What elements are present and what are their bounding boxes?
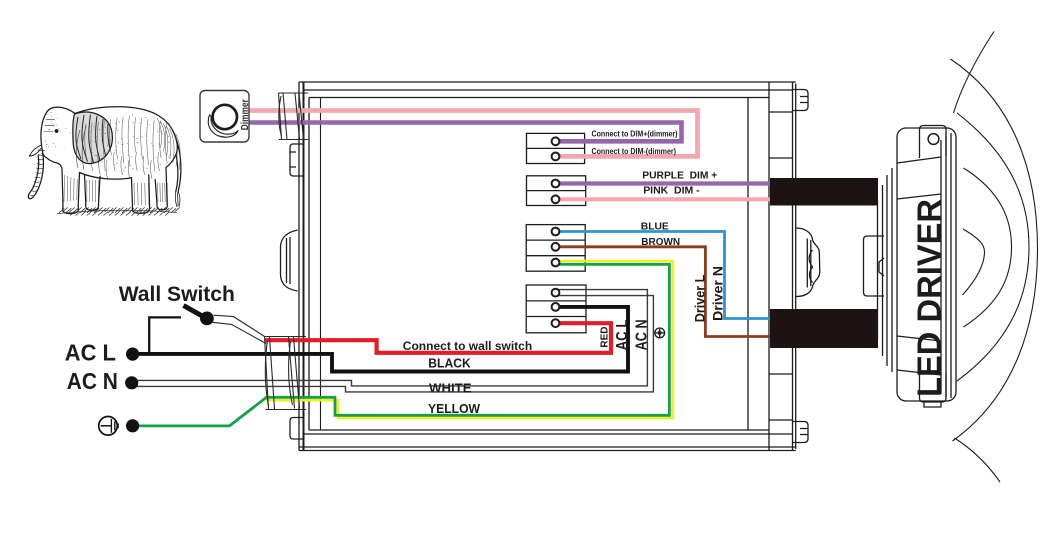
svg-text:Connect to wall switch: Connect to wall switch <box>403 339 532 353</box>
svg-text:RED: RED <box>599 326 611 347</box>
svg-text:AC L: AC L <box>65 340 116 366</box>
svg-text:BLUE: BLUE <box>641 220 669 232</box>
svg-text:PINK DIM -: PINK DIM - <box>643 185 700 197</box>
svg-text:YELLOW: YELLOW <box>428 402 480 416</box>
svg-text:PURPLE DIM +: PURPLE DIM + <box>642 169 717 181</box>
svg-text:Driver N: Driver N <box>711 266 726 321</box>
svg-text:AC N: AC N <box>633 319 650 350</box>
svg-text:LED DRIVER: LED DRIVER <box>911 199 948 397</box>
svg-text:BROWN: BROWN <box>641 236 680 248</box>
svg-text:Driver L: Driver L <box>693 275 708 323</box>
svg-text:AC L: AC L <box>614 319 631 350</box>
svg-text:Connect to DIM-(dimmer): Connect to DIM-(dimmer) <box>592 146 677 156</box>
svg-text:Wall Switch: Wall Switch <box>119 282 235 306</box>
svg-text:BLACK: BLACK <box>428 357 470 371</box>
svg-text:Dimmer: Dimmer <box>239 99 251 130</box>
svg-text:WHITE: WHITE <box>429 382 472 396</box>
svg-text:Connect to DIM+(dimmer): Connect to DIM+(dimmer) <box>592 128 678 138</box>
svg-text:AC N: AC N <box>67 368 118 394</box>
